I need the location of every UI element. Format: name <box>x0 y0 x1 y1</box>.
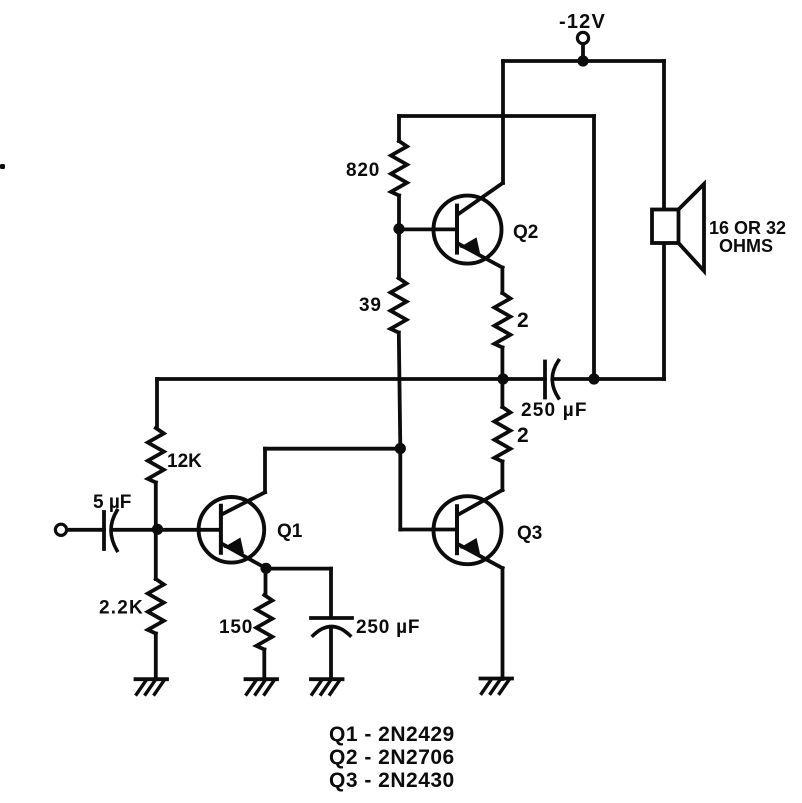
junction dot Q1 collector node <box>395 443 406 454</box>
wire bypass cap drop <box>329 569 333 617</box>
resistor 2 lower <box>494 407 510 462</box>
speaker driver square <box>652 210 679 244</box>
wire 39 top lead <box>397 232 401 278</box>
junction dot Q2 base node <box>393 223 404 234</box>
svg-text:250 µF: 250 µF <box>521 400 588 421</box>
transistor Q1 emitter <box>223 544 266 568</box>
wire bypass cap bottom lead <box>329 629 333 680</box>
svg-text:Q3 - 2N2430: Q3 - 2N2430 <box>329 769 455 792</box>
wire output node bus <box>157 377 503 381</box>
wire 12K top lead <box>155 379 159 428</box>
capacitor C-out 250uF plates <box>543 362 547 398</box>
ground Q3 <box>481 677 513 681</box>
svg-text:Q2 - 2N2706: Q2 - 2N2706 <box>329 746 455 769</box>
svg-text:12K: 12K <box>167 451 202 472</box>
transistor Q1 emitter arrow <box>225 539 243 553</box>
transistor Q3 collector <box>459 490 502 514</box>
svg-text:OHMS: OHMS <box>719 236 773 256</box>
svg-text:150: 150 <box>219 617 253 638</box>
svg-text:2: 2 <box>517 424 529 447</box>
wire Q3 emitter drop <box>501 568 505 679</box>
transistor Q2 body <box>434 196 502 264</box>
wire Q1 collector vertical <box>263 449 267 492</box>
wire 2.2K bottom lead <box>154 634 158 680</box>
wire 820 bottom lead <box>397 196 401 233</box>
resistor 39 <box>391 278 407 333</box>
wire speaker vertical <box>662 61 666 209</box>
wire Q3 base <box>400 528 456 532</box>
transistor Q3 emitter <box>459 545 503 569</box>
power terminal -12V <box>577 32 588 43</box>
wire Q1 base <box>158 528 221 532</box>
wire 39 bottom lead <box>399 333 401 447</box>
svg-text:16 OR 32: 16 OR 32 <box>709 218 786 238</box>
wire Q2 base <box>399 227 457 231</box>
wire output to cap <box>503 377 545 381</box>
capacitor C-in 5uF plates <box>102 512 106 549</box>
speaker horn <box>679 184 705 271</box>
svg-text:Q3: Q3 <box>517 523 542 544</box>
resistor 2 upper <box>494 293 510 348</box>
resistor 2.2K <box>148 579 164 633</box>
ground under 2.2K <box>136 677 168 681</box>
wire input lead <box>67 528 104 532</box>
transistor Q2 emitter arrow <box>462 239 480 253</box>
transistor Q3 emitter arrow <box>462 539 480 553</box>
scan speck left margin <box>0 164 5 169</box>
wire cap to speaker node <box>553 377 594 381</box>
resistor 150 <box>256 595 272 649</box>
wire 2.2K top lead <box>154 533 158 579</box>
junction dot speaker node <box>588 373 599 384</box>
wire Q2 collector drop <box>501 61 505 183</box>
wire bootstrap drop <box>592 116 596 379</box>
svg-text:5 µF: 5 µF <box>93 492 131 513</box>
svg-text:Q2: Q2 <box>513 222 538 243</box>
svg-text:Q1 - 2N2429: Q1 - 2N2429 <box>329 723 455 746</box>
input terminal <box>55 524 66 535</box>
svg-text:39: 39 <box>359 295 382 316</box>
resistor 820 <box>391 141 407 195</box>
wire 150 bottom lead <box>262 650 266 680</box>
transistor Q3 body <box>434 496 502 564</box>
transistor Q1 body <box>199 497 265 563</box>
wire bootstrap rail <box>399 114 594 118</box>
junction dot Q1 emitter node <box>260 563 271 574</box>
junction dot output node <box>497 373 508 384</box>
wire 820 top lead <box>397 116 401 141</box>
resistor 12K <box>148 428 164 483</box>
ground under 150 <box>246 677 278 681</box>
transistor Q1 collector <box>223 492 265 514</box>
svg-text:2: 2 <box>517 309 529 332</box>
wire 150 top lead <box>264 568 268 595</box>
wire Q2 emitter lead <box>500 268 504 293</box>
transistor Q2 collector <box>459 183 503 214</box>
transistor Q2 emitter <box>459 244 503 268</box>
wire Q1 emitter bypass bus <box>266 567 331 571</box>
svg-text:820: 820 <box>346 160 380 181</box>
svg-text:-12V: -12V <box>559 11 606 33</box>
wire speaker bottom lead <box>594 377 664 381</box>
wire 12K bottom lead <box>154 483 158 526</box>
wire cap to base node <box>112 528 158 532</box>
wire Q3 base drop <box>398 449 402 530</box>
wire resistor2-upper bottom lead <box>500 348 504 380</box>
junction dot top rail <box>577 55 588 66</box>
wire top -12V rail <box>503 59 664 63</box>
svg-text:250 µF: 250 µF <box>356 617 420 638</box>
wire Q1 collector bus <box>265 447 400 451</box>
wire Q3 collector lead <box>500 462 504 491</box>
svg-text:Q1: Q1 <box>277 521 303 542</box>
junction dot Q1 base node <box>152 524 163 535</box>
ground under bypass cap <box>311 677 343 681</box>
capacitor C-bypass 250uF plates <box>311 616 352 620</box>
svg-text:2.2K: 2.2K <box>99 598 144 619</box>
wire resistor2-lower top lead <box>500 379 504 407</box>
